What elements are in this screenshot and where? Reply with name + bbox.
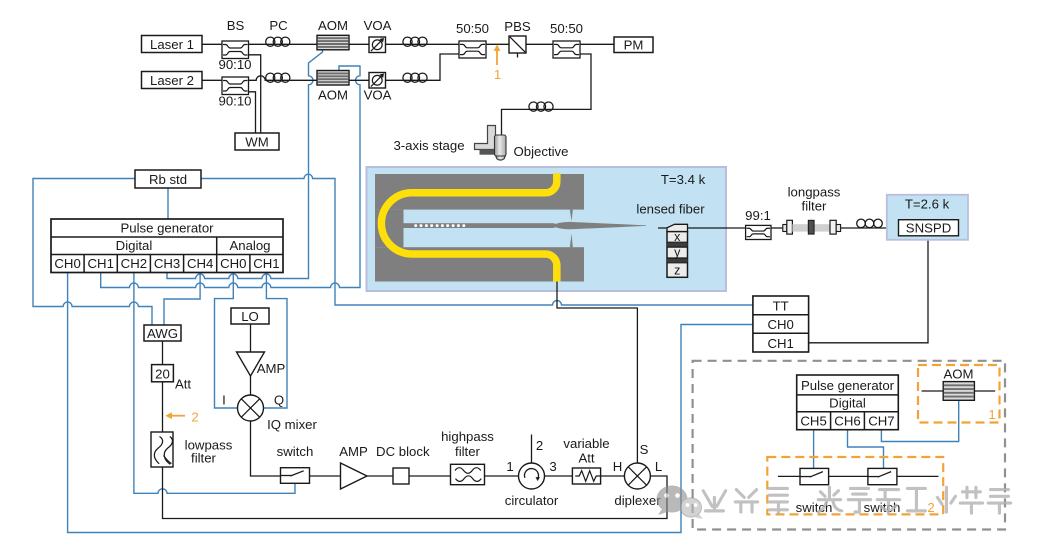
svg-text:2: 2 bbox=[191, 410, 198, 425]
svg-text:PC: PC bbox=[269, 18, 288, 33]
svg-text:circulator: circulator bbox=[505, 493, 559, 508]
svg-text:filter: filter bbox=[191, 451, 217, 466]
svg-text:90:10: 90:10 bbox=[218, 94, 251, 109]
svg-text:CH1: CH1 bbox=[253, 256, 279, 271]
svg-text:2: 2 bbox=[927, 500, 934, 515]
svg-text:x: x bbox=[674, 230, 681, 244]
svg-text:AOM: AOM bbox=[943, 367, 973, 382]
svg-text:Att: Att bbox=[175, 377, 191, 392]
svg-text:Digital: Digital bbox=[116, 238, 153, 253]
svg-text:WM: WM bbox=[245, 135, 268, 150]
svg-text:I: I bbox=[222, 393, 226, 408]
svg-text:longpass: longpass bbox=[788, 185, 841, 200]
svg-text:AOM: AOM bbox=[318, 88, 348, 103]
svg-text:T=3.4 k: T=3.4 k bbox=[661, 172, 706, 187]
svg-text:CH5: CH5 bbox=[800, 414, 826, 429]
svg-text:VOA: VOA bbox=[364, 88, 392, 103]
svg-text:T=2.6 k: T=2.6 k bbox=[905, 197, 950, 212]
svg-text:Objective: Objective bbox=[514, 144, 569, 159]
svg-text:1: 1 bbox=[506, 459, 513, 474]
svg-text:Laser 2: Laser 2 bbox=[150, 73, 194, 88]
svg-text:99:1: 99:1 bbox=[745, 208, 771, 223]
svg-text:AMP: AMP bbox=[257, 361, 286, 376]
svg-text:TT: TT bbox=[773, 299, 789, 314]
svg-text:Att: Att bbox=[578, 451, 594, 466]
svg-text:Digital: Digital bbox=[829, 396, 866, 411]
svg-text:diplexer: diplexer bbox=[614, 493, 661, 508]
svg-text:CH1: CH1 bbox=[768, 336, 794, 351]
svg-text:3-axis stage: 3-axis stage bbox=[393, 138, 464, 153]
svg-text:CH2: CH2 bbox=[121, 256, 147, 271]
svg-text:CH0: CH0 bbox=[768, 317, 794, 332]
svg-text:IQ mixer: IQ mixer bbox=[267, 417, 317, 432]
svg-text:1: 1 bbox=[494, 67, 501, 82]
svg-text:BS: BS bbox=[227, 18, 245, 33]
svg-text:S: S bbox=[640, 442, 649, 457]
svg-text:H: H bbox=[613, 459, 623, 474]
svg-text:CH3: CH3 bbox=[154, 256, 180, 271]
svg-text:20: 20 bbox=[155, 367, 170, 382]
svg-text:1: 1 bbox=[988, 407, 995, 422]
svg-text:CH1: CH1 bbox=[88, 256, 114, 271]
svg-text:highpass: highpass bbox=[441, 429, 494, 444]
svg-text:switch: switch bbox=[277, 444, 314, 459]
svg-text:CH4: CH4 bbox=[187, 256, 213, 271]
svg-text:AWG: AWG bbox=[147, 326, 178, 341]
svg-text:50:50: 50:50 bbox=[456, 21, 489, 36]
svg-text:filter: filter bbox=[802, 199, 828, 214]
svg-text:AMP: AMP bbox=[339, 444, 368, 459]
svg-text:Analog: Analog bbox=[229, 238, 270, 253]
svg-text:90:10: 90:10 bbox=[218, 57, 251, 72]
svg-text:Laser 1: Laser 1 bbox=[150, 37, 194, 52]
svg-text:y: y bbox=[674, 246, 681, 260]
svg-text:variable: variable bbox=[563, 436, 609, 451]
svg-text:Rb std: Rb std bbox=[149, 172, 187, 187]
svg-text:3: 3 bbox=[549, 459, 556, 474]
svg-text:L: L bbox=[655, 459, 662, 474]
svg-text:2: 2 bbox=[536, 438, 543, 453]
svg-text:CH0: CH0 bbox=[220, 256, 246, 271]
svg-text:Q: Q bbox=[274, 393, 284, 408]
svg-text:Pulse generator: Pulse generator bbox=[120, 221, 214, 236]
svg-text:lensed fiber: lensed fiber bbox=[636, 202, 705, 217]
svg-text:z: z bbox=[674, 263, 680, 277]
svg-text:LO: LO bbox=[241, 309, 259, 324]
svg-text:PBS: PBS bbox=[504, 19, 531, 34]
svg-text:PM: PM bbox=[624, 38, 644, 53]
svg-text:50:50: 50:50 bbox=[550, 21, 583, 36]
svg-text:CH0: CH0 bbox=[54, 256, 80, 271]
svg-text:VOA: VOA bbox=[364, 18, 392, 33]
svg-text:filter: filter bbox=[455, 444, 481, 459]
svg-text:Pulse generator: Pulse generator bbox=[801, 378, 895, 393]
svg-text:SNSPD: SNSPD bbox=[906, 221, 951, 236]
svg-text:CH6: CH6 bbox=[834, 414, 860, 429]
svg-text:AOM: AOM bbox=[318, 18, 348, 33]
svg-text:CH7: CH7 bbox=[868, 414, 894, 429]
svg-text:DC block: DC block bbox=[376, 444, 430, 459]
